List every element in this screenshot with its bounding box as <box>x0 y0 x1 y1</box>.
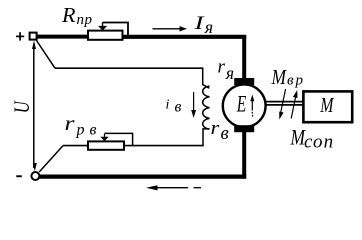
svg-text:r: r <box>218 57 226 78</box>
Iя current arrow <box>153 28 181 30</box>
field wire: bottom horizontal (coil to rheostat) <box>123 145 204 147</box>
field wire: diagonal from + terminal <box>37 41 56 69</box>
torque arrow Мвр (down across shaft) <box>281 89 286 113</box>
wire top (+ terminal to Rпр) <box>36 35 92 39</box>
field wire: coil bottom down <box>203 129 210 146</box>
svg-text:пр: пр <box>77 12 93 28</box>
U arrow up (at + terminal) <box>32 41 36 50</box>
terminal minus <box>31 172 39 180</box>
svg-text:R: R <box>61 3 76 27</box>
plus sign <box>16 35 24 37</box>
svg-text:в: в <box>221 123 229 144</box>
svg-text:я: я <box>204 17 213 37</box>
brush top <box>234 78 254 85</box>
svg-text:соп: соп <box>304 132 334 153</box>
E arrow (emf, up) <box>251 100 253 111</box>
torque arrow Мсоп (up across shaft) <box>291 96 296 119</box>
U arrow down (at - terminal) <box>33 163 37 172</box>
svg-text:r: r <box>65 113 75 135</box>
bottom current arrow (left) <box>156 187 188 189</box>
field wire: diagonal to - terminal <box>39 146 63 172</box>
wire right vertical (to top brush) <box>242 35 246 80</box>
rheostat Rпр body <box>88 31 123 40</box>
svg-text:i: i <box>166 98 170 113</box>
svg-text:рв: рв <box>76 122 102 139</box>
rрв tap bracket wire <box>105 133 133 145</box>
svg-text:r: r <box>211 118 221 139</box>
shaft (double line) <box>266 101 304 103</box>
field wire: top horizontal <box>55 67 203 69</box>
rрв tap arrow <box>104 134 106 137</box>
wire bottom horizontal <box>39 174 246 178</box>
terminal plus <box>30 33 37 40</box>
load box M <box>303 91 352 122</box>
field winding coil (rв) <box>203 86 210 129</box>
wire motor bottom vertical <box>242 131 246 179</box>
armature circle (machine) <box>223 84 266 127</box>
Rпр tap arrow <box>102 23 104 27</box>
svg-text:M: M <box>320 93 335 117</box>
bottom arrow dash <box>194 187 202 189</box>
brush bottom <box>234 125 254 132</box>
svg-text:E: E <box>236 91 246 116</box>
Rпр tap bracket wire <box>103 23 129 37</box>
svg-text:я: я <box>225 63 234 83</box>
field wire: down to coil top <box>203 68 210 89</box>
svg-text:вр: вр <box>287 73 305 89</box>
minus sign <box>16 175 22 177</box>
svg-text:M: M <box>271 65 288 89</box>
rheostat rрв body <box>88 141 124 149</box>
svg-text:в: в <box>175 98 182 115</box>
U dimension line <box>33 44 35 168</box>
iв current arrow <box>193 92 195 111</box>
field wire: rheostat to diagonal <box>63 145 88 147</box>
wire top (Rпр to right corner) <box>120 35 246 39</box>
svg-text:U: U <box>9 100 34 114</box>
